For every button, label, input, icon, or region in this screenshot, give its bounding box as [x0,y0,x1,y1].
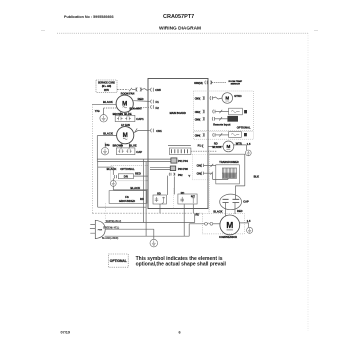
svg-text:Remote input: Remote input [213,122,230,126]
legend text [136,256,227,268]
capacitor terminal labels [213,209,242,213]
svg-text:1.5: 1.5 [247,219,251,223]
svg-text:WHITE(+BLU): WHITE(+BLU) [106,220,122,223]
wire black optional [98,166,114,168]
svg-text:OPTIONAL: OPTIONAL [237,126,251,130]
fan motor M2 [117,127,134,144]
svg-text:DR: DR [124,175,129,179]
svg-text:CN5: CN5 [155,88,161,92]
wire above strip [168,144,191,146]
room temp sensor [229,81,243,86]
svg-text:CAP: CAP [136,150,142,154]
svg-text:BLACK: BLACK [103,132,113,136]
remote row CN8 [195,118,201,121]
transformer connector row 1 [197,164,202,168]
right crop mark [314,30,318,32]
wifi row CN4 [195,134,201,137]
inline connector pair [136,88,141,92]
green wire down to ground [153,229,155,239]
bus vertical to black plug wire [145,162,147,237]
bus horizontal wire 2 [97,161,171,163]
transformer label [219,161,239,164]
svg-text:F2: F2 [156,106,160,110]
wifi box [229,132,242,138]
dashed wire BLK-WHT motor1 to F2 [132,107,150,109]
svg-text:Y: Y [188,174,191,178]
svg-text:115V: 115V [104,90,110,92]
relay 2 wires [150,167,170,169]
svg-text:P02: P02 [178,173,183,177]
dashed wire from strip [191,150,217,152]
svg-text:BLUE: BLUE [129,143,137,147]
overload box L [157,193,161,196]
ground G5 [245,150,251,156]
svg-text:BROWN: BROWN [113,143,124,147]
ground G6 [247,227,253,233]
connector row P02 [169,173,175,176]
wire OL box L down [159,204,161,213]
capacitor CAP1 box [115,115,135,121]
svg-text:WIRING DIAGRAM: WIRING DIAGRAM [159,26,201,32]
left crop mark [41,30,45,32]
motor1 capacitor leads [121,112,129,116]
transformer box [216,165,240,184]
svg-text:MAIN BOARD: MAIN BOARD [170,112,186,115]
overload box R [181,192,185,195]
svg-text:CAP: CAP [243,200,249,204]
svg-text:BLK+WHT: BLK+WHT [130,108,143,111]
svg-text:Y/G: Y/G [105,143,110,147]
wire pump to ground [234,145,247,150]
grounded compressor note box [109,191,147,204]
dashed wire motor1 left lower [104,107,117,109]
header publication number [64,15,114,19]
optional dotted box 2 [194,132,254,140]
wire to ground 1 [103,108,105,115]
power section dashed enclosure [192,155,209,180]
wire [132,89,136,91]
bus vertical to white plug wire [142,159,144,222]
dotted drop under note box [104,203,106,219]
fan motor 1 label [121,93,135,96]
optional dotted box 1 [194,91,254,131]
cap leads to compressor [226,203,235,217]
wires OL box R down [184,204,193,236]
svg-text:RED: RED [138,97,144,101]
run capacitor circle [220,194,242,210]
wire to ground 2 [104,143,106,148]
wire to ground 3 [112,178,114,180]
wire motor2 to CN1 with splice [134,130,150,133]
footer date [61,331,71,335]
terminal strip box [169,148,191,155]
main board box [148,79,208,209]
svg-text:P03 P06: P03 P06 [178,167,189,171]
dotted divider [172,189,174,209]
ground G1 [100,115,107,122]
svg-text:F1: F1 [156,100,160,104]
fan motor 2 label [121,124,130,127]
compressor ground wire [240,223,249,227]
svg-text:RD: RD [140,197,144,201]
wire down to DR connector [112,167,114,175]
connector F2 [151,105,154,109]
DR box [118,174,133,179]
wire RED motor1 to F1 [133,100,150,103]
ground G2 [101,148,108,155]
legend optional box [108,254,128,267]
plug wire white [105,222,195,224]
svg-text:1.5: 1.5 [247,142,251,146]
svg-text:ROOM TEMP: ROOM TEMP [229,81,243,83]
bus horizontal wire 1 [97,158,171,160]
right page divider dotted [307,33,309,331]
title WIRING DIAGRAM [159,26,201,32]
wire down to relay box R [173,176,175,194]
svg-text:OPTIONAL: OPTIONAL [110,259,127,263]
title underline dotted [57,32,308,34]
svg-text:M: M [226,144,230,149]
wire [142,89,150,91]
ground G3 [110,181,116,187]
svg-text:CN4(: CN4( [195,134,201,137]
bus bottom horizontal [98,206,146,208]
left bus lower vertical [97,162,99,208]
wire down to OL box [166,176,168,195]
svg-text:CN3(: CN3( [195,98,201,101]
wire black lower [113,186,148,190]
svg-text:RD: RD [195,213,199,217]
water pump motor [223,141,234,152]
wire service cord to board (dashed) [117,89,129,91]
svg-text:COMPRESSOR: COMPRESSOR [219,236,237,239]
plug wire black [105,235,190,237]
svg-text:RED: RED [237,209,243,213]
svg-text:CN6(13): CN6(13) [194,83,203,85]
svg-text:BLACK(+RED): BLACK(+RED) [102,237,119,240]
svg-text:SENSOR: SENSOR [231,84,241,86]
svg-text:CN(: CN( [197,171,202,175]
svg-text:CN(: CN( [197,164,202,168]
svg-text:CAP1: CAP1 [136,117,144,121]
svg-text:RED: RED [135,172,141,176]
connector F1 [151,100,154,104]
white wire up to relay [194,214,196,223]
svg-text:GROUNDED: GROUNDED [119,199,135,203]
water pump row P1 [198,143,203,147]
connector DR [114,175,116,178]
svg-text:M: M [122,101,127,108]
motor2 capacitor leads [121,143,129,148]
compressor motor [220,215,240,235]
svg-text:OPTIONAL: OPTIONAL [120,167,135,171]
capacitor CAP2 box [116,148,134,155]
svg-text:PWR: PWR [98,230,103,232]
svg-text:M: M [225,96,229,101]
sensor connector row [194,83,203,85]
wire to compressor capacitor BLK [210,154,245,199]
svg-text:GREEN(+YEL): GREEN(+YEL) [103,226,119,229]
svg-text:BLACK: BLACK [213,209,222,213]
splice mark [129,88,132,91]
step motor SYNC [222,93,233,104]
svg-text:BLACK: BLACK [103,100,113,104]
wire DR to board [134,175,149,177]
svg-text:Y/G: Y/G [95,109,100,113]
svg-text:BLACK: BLACK [130,186,140,190]
header model number [163,14,194,20]
svg-text:BLACK: BLACK [107,167,117,171]
connector CN1 [151,129,154,133]
svg-text:P1 (: P1 ( [198,143,203,147]
connector CN5 [151,88,154,92]
black wire up to OLP [189,224,204,236]
left bus wire white [96,136,98,162]
svg-text:M: M [123,132,128,139]
transformer connector row 2 [197,171,202,175]
svg-text:BLACK: BLACK [212,145,221,149]
optional drain section dashed box [111,166,148,181]
wire BLACK to motor 2 [97,135,116,137]
relay 2 box [170,166,175,171]
power plug [95,220,105,238]
overload protector OLP [205,222,208,225]
svg-text:P01 P04: P01 P04 [178,159,189,163]
main board label [170,112,186,115]
display box [229,108,243,115]
svg-text:CRA057PT7: CRA057PT7 [163,14,194,20]
step motor row CN3 [195,98,201,101]
svg-text:SERVICE CORD: SERVICE CORD [98,83,115,85]
svg-text:CN8(: CN8( [195,118,201,121]
svg-text:TRANSFORMER: TRANSFORMER [219,161,239,164]
svg-text:CN2(: CN2( [195,111,201,114]
svg-text:RVT: RVT [191,196,196,198]
service cord box [96,80,117,92]
svg-text:(M + GN): (M + GN) [102,86,112,88]
relay 1 box [171,158,177,163]
svg-text:07/19: 07/19 [61,331,71,335]
dotted link board corner to compressor box [208,209,210,214]
dashed line to compressor enclosure [92,212,202,214]
ground G4 [150,239,158,247]
footer page number [179,331,181,335]
fan motor M1 [116,95,133,112]
svg-text:M: M [226,221,233,230]
svg-text:optional,the actual shape shal: optional,the actual shape shall prevail [136,261,227,267]
svg-text:RD: RD [214,141,218,145]
svg-text:CN1: CN1 [156,129,162,133]
plug wire green [105,228,154,230]
svg-text:SYNC: SYNC [234,94,242,98]
remote receiver box [228,116,238,121]
compressor dotted enclosure [202,213,244,234]
wire BLACK to motor 1 [92,103,116,105]
display row CN2 [195,111,201,114]
optional dotted bus wire left [91,104,93,213]
svg-text:Publication No : 5995589893: Publication No : 5995589893 [64,15,114,19]
svg-text:RD: RD [181,192,185,195]
svg-text:6: 6 [179,331,181,335]
svg-text:WTR: WTR [236,141,242,145]
svg-text:BLK: BLK [254,175,260,179]
